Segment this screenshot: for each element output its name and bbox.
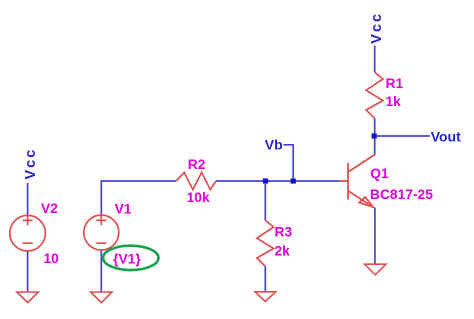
wire (down to R3) xyxy=(264,183,266,220)
svg-text:Vout: Vout xyxy=(431,129,461,145)
svg-text:10: 10 xyxy=(44,251,60,266)
svg-text:{V1}: {V1} xyxy=(113,252,141,267)
node junction (Vout) xyxy=(372,133,377,138)
resistor R2 xyxy=(176,172,216,189)
wire (Vb stub) xyxy=(284,145,294,179)
svg-text:BC817-25: BC817-25 xyxy=(370,187,433,202)
wire xyxy=(264,266,266,291)
wire xyxy=(27,252,29,292)
wire (V1 riser and corner) xyxy=(101,181,176,215)
wire (to Vout) xyxy=(377,135,430,137)
svg-text:Vb: Vb xyxy=(265,137,283,153)
wire (emitter down) xyxy=(374,208,376,264)
svg-text:R2: R2 xyxy=(188,157,206,172)
wire xyxy=(374,46,376,73)
wire xyxy=(374,118,376,154)
annotation ellipse (green) xyxy=(103,246,158,270)
wire (main) xyxy=(216,180,340,182)
voltage source V2 xyxy=(10,215,46,251)
voltage source V1 xyxy=(84,215,119,250)
svg-text:10k: 10k xyxy=(187,190,210,205)
svg-text:Vcc: Vcc xyxy=(369,12,385,44)
transistor Q1 xyxy=(340,154,376,207)
resistor R1 xyxy=(366,72,383,118)
resistor R3 xyxy=(257,220,274,266)
ground (V1) xyxy=(91,292,112,303)
ground (Q1) xyxy=(365,264,387,275)
node junction (Vb tap) xyxy=(291,178,296,183)
svg-text:V1: V1 xyxy=(115,202,132,217)
ground (R3) xyxy=(255,292,276,302)
svg-text:V2: V2 xyxy=(41,201,58,216)
svg-text:R3: R3 xyxy=(275,224,293,239)
svg-text:1k: 1k xyxy=(386,94,402,109)
wire xyxy=(100,251,102,292)
svg-text:Vcc: Vcc xyxy=(23,148,39,180)
svg-text:R1: R1 xyxy=(386,76,404,91)
ground (V2) xyxy=(17,292,38,303)
svg-text:Q1: Q1 xyxy=(370,166,389,181)
svg-text:2k: 2k xyxy=(275,244,291,259)
node junction (R3 tap) xyxy=(263,178,268,183)
wire xyxy=(27,183,29,216)
